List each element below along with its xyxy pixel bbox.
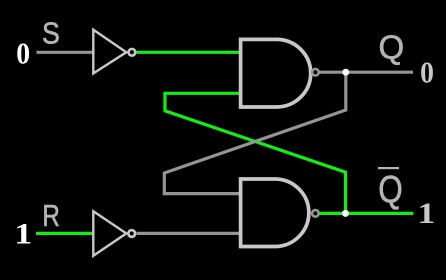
junction node Q bbox=[342, 69, 349, 76]
wire R input (high, green) bbox=[36, 232, 93, 235]
wire U1 output to NAND U3 input A (high, green) bbox=[137, 51, 241, 54]
NAND gate U4 (bottom) bbox=[241, 179, 319, 247]
svg-text:1: 1 bbox=[14, 219, 32, 251]
svg-text:0: 0 bbox=[420, 56, 434, 90]
inverter U1 (S input NOT gate) bbox=[93, 30, 135, 74]
svg-text:Q: Q bbox=[378, 169, 403, 211]
svg-text:1: 1 bbox=[417, 197, 435, 230]
wire Qbar feedback: from Qbar node up-left to NAND U3 input B (high, green) bbox=[165, 93, 346, 213]
wire Q output (low, gray) bbox=[320, 71, 414, 74]
inverter U2 (R input NOT gate) bbox=[93, 211, 135, 256]
wire S input (low, gray) bbox=[37, 51, 94, 54]
label Qbar overline bbox=[378, 167, 399, 169]
junction node Qbar bbox=[342, 210, 349, 217]
svg-text:R: R bbox=[42, 198, 60, 233]
svg-text:0: 0 bbox=[16, 37, 30, 71]
wire U2 output to NAND U4 input B (low, gray) bbox=[137, 232, 241, 235]
NAND gate U3 (top) bbox=[241, 39, 319, 107]
wire Qbar output (high, green) bbox=[320, 212, 414, 215]
svg-text:S: S bbox=[42, 15, 60, 50]
wire Q feedback: from Q node down-left to NAND U4 input A (low, gray) bbox=[164, 72, 345, 193]
svg-text:Q: Q bbox=[379, 29, 405, 66]
